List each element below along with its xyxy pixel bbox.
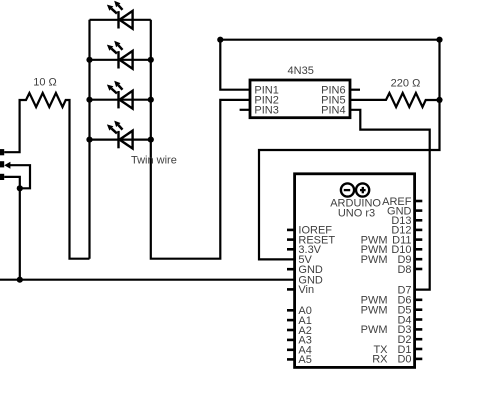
svg-text:D8: D8 [397,264,411,276]
svg-text:220 Ω: 220 Ω [391,77,421,89]
svg-text:PWM: PWM [361,305,388,317]
svg-text:Vin: Vin [298,284,314,296]
svg-text:PIN3: PIN3 [254,105,278,117]
svg-text:PIN4: PIN4 [321,105,345,117]
svg-text:10 Ω: 10 Ω [33,77,57,89]
svg-text:4N35: 4N35 [288,65,314,77]
svg-text:PWM: PWM [361,254,388,266]
svg-text:D0: D0 [397,354,411,366]
svg-text:UNO r3: UNO r3 [338,208,375,220]
svg-text:Twin wire: Twin wire [131,155,177,167]
svg-text:A5: A5 [298,354,311,366]
svg-text:PWM: PWM [361,324,388,336]
svg-text:RX: RX [372,354,388,366]
